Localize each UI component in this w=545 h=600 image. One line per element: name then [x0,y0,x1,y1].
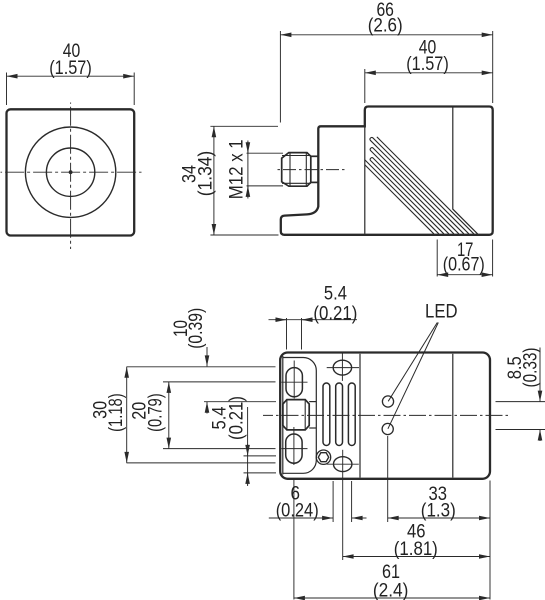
svg-text:(0.79): (0.79) [145,393,167,432]
svg-text:(2.6): (2.6) [368,14,403,36]
svg-text:(1.18): (1.18) [105,393,127,432]
svg-text:5.4: 5.4 [324,283,347,305]
svg-text:(1.34): (1.34) [194,151,216,197]
svg-text:(1.81): (1.81) [394,538,438,560]
svg-text:(2.4): (2.4) [373,580,409,600]
svg-text:(0.67): (0.67) [443,254,485,276]
svg-text:LED: LED [425,300,458,322]
svg-text:(0.21): (0.21) [226,396,248,440]
svg-text:(0.39): (0.39) [185,308,207,349]
svg-text:(0.21): (0.21) [313,303,357,325]
svg-text:(1.3): (1.3) [421,500,456,522]
svg-text:(0.33): (0.33) [519,348,541,388]
svg-text:(0.24): (0.24) [276,499,319,521]
svg-text:M12 x 1: M12 x 1 [225,139,247,199]
svg-text:(1.57): (1.57) [406,53,449,75]
svg-text:(1.57): (1.57) [49,57,92,79]
